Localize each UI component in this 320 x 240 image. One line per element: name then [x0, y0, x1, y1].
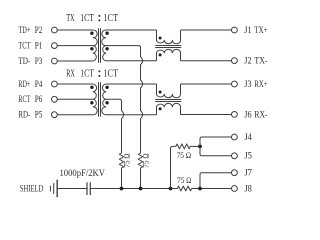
svg-text:RX-: RX- [254, 110, 267, 120]
wire choke L1 bottom to J2 [181, 60, 232, 62]
svg-text:TX+: TX+ [254, 26, 267, 36]
common-mode choke L1 top winding [157, 30, 181, 44]
transformer T2 secondary winding [102, 84, 106, 115]
wire choke L1 top to J1 [181, 29, 232, 31]
resistor R4 75 ohm (J7/J8 to rail) [177, 186, 191, 191]
wire P3 to T1 primary bottom [57, 60, 93, 62]
pin P2 terminal circle [52, 27, 58, 33]
transformer T2 secondary polarity dot (bottom winding) [105, 101, 108, 104]
svg-text:1CT: 1CT [103, 13, 118, 24]
wire bracket J7 to rail junction [200, 173, 232, 189]
svg-text:J4: J4 [244, 133, 252, 143]
svg-text:J3: J3 [244, 80, 251, 90]
svg-text:J5: J5 [244, 152, 252, 162]
transformer T2 primary polarity dot (top) [90, 86, 93, 89]
wire T2 secondary bottom to choke L2 bottom [106, 114, 157, 116]
pin P6 terminal circle [52, 96, 58, 102]
svg-text:RD-: RD- [18, 111, 30, 121]
svg-text:75: 75 [123, 160, 132, 167]
transformer T1 primary polarity dot (bottom winding) [90, 47, 93, 50]
svg-text:J7: J7 [244, 169, 252, 179]
svg-text:1000pF/2KV: 1000pF/2KV [60, 168, 106, 178]
svg-text:75: 75 [177, 151, 184, 160]
svg-text:P6: P6 [35, 95, 43, 105]
svg-text:TD-: TD- [18, 57, 30, 67]
transformer T1 secondary polarity dot (top) [105, 32, 108, 35]
junction dot J4/J5 bracket [198, 145, 202, 149]
svg-text:1CT: 1CT [80, 69, 94, 80]
transformer T1 primary polarity dot (top) [90, 32, 93, 35]
junction dot rail at R1 [120, 187, 124, 191]
svg-text:P1: P1 [35, 42, 43, 52]
common-mode choke L2 bottom winding [157, 103, 181, 114]
svg-text:P5: P5 [35, 111, 43, 121]
resistor R2 75 ohm (TX center tap) [138, 153, 142, 189]
wire T1 secondary bottom to choke L1 bottom [106, 60, 157, 62]
svg-text:TD+: TD+ [18, 26, 30, 36]
svg-text:J6: J6 [244, 110, 251, 120]
junction dot rail at J7 branch [198, 187, 202, 191]
svg-text:TX: TX [66, 13, 75, 24]
pin P4 terminal circle [52, 81, 58, 87]
wire P2 to T1 primary top [57, 29, 93, 31]
svg-text:RD+: RD+ [18, 80, 30, 90]
wire choke L2 bottom to J6 [181, 114, 232, 116]
choke L1 top polarity dot [159, 37, 162, 40]
label TX transformer ratio [66, 13, 118, 24]
pin P5 terminal circle [52, 112, 58, 118]
transformer T1 secondary winding [102, 30, 106, 61]
pin J7 terminal circle [232, 170, 238, 176]
wire T1 secondary center tap to resistor R2 (vertical with hops) [106, 46, 143, 153]
wire P6 to T2 primary center tap [57, 98, 93, 100]
svg-text:SHIELD: SHIELD [20, 184, 44, 194]
pin J2 terminal circle [232, 58, 238, 64]
choke L2 top polarity dot [159, 91, 162, 94]
pin P3 terminal circle [52, 58, 58, 64]
svg-text:Ω: Ω [186, 151, 191, 160]
transformer T2 secondary polarity dot (top) [105, 86, 108, 89]
pin P1 terminal circle [52, 43, 58, 49]
svg-text:RX: RX [66, 69, 75, 80]
choke L1 core [155, 46, 181, 48]
wire P1 to T1 primary center tap [57, 45, 93, 47]
wire T2 secondary top to choke L2 [106, 83, 157, 85]
svg-text:Ω: Ω [186, 176, 191, 185]
svg-text:1CT: 1CT [80, 13, 94, 24]
choke L2 bottom polarity dot [159, 107, 162, 110]
svg-text:TCT: TCT [18, 42, 30, 52]
svg-text:J1: J1 [244, 26, 251, 36]
pin J1 terminal circle [232, 27, 238, 33]
common-mode choke L1 bottom winding [157, 49, 181, 60]
capacitor C1 1000pF/2KV plate left [86, 182, 88, 195]
transformer T2 primary polarity dot (bottom winding) [90, 101, 93, 104]
rail wire capacitor to resistor R4 [90, 188, 177, 190]
svg-text:J8: J8 [244, 184, 252, 194]
shield chassis symbol [56, 180, 58, 198]
pin J6 terminal circle [232, 112, 238, 118]
svg-text:Ω: Ω [142, 153, 151, 158]
junction dot rail at R3 branch [169, 187, 173, 191]
svg-text:RX+: RX+ [254, 80, 267, 90]
transformer T2 (RX 1CT:1CT) primary winding [93, 84, 97, 115]
value label R1 75 ohm (rotated) [123, 153, 132, 167]
choke L1 bottom polarity dot [159, 53, 162, 56]
svg-text:Ω: Ω [123, 153, 132, 158]
capacitor C1 plate right [89, 182, 91, 195]
pin J3 terminal circle [232, 81, 238, 87]
pin J4 terminal circle [232, 134, 238, 140]
svg-text:RCT: RCT [18, 95, 30, 105]
wire P4 to T2 primary top [57, 83, 93, 85]
resistor R1 75 ohm (RX center tap) [119, 153, 123, 189]
svg-text:TX-: TX- [254, 56, 267, 66]
transformer T1 (TX 1CT:1CT) primary winding [93, 30, 97, 61]
transformer T1 core [99, 28, 101, 63]
wire choke L2 top to J3 [181, 83, 232, 85]
label RX transformer ratio [66, 69, 118, 80]
choke L2 core [155, 100, 181, 102]
svg-text:P2: P2 [35, 26, 43, 36]
resistor R3 75 ohm (J4/J5 to rail) with down lead [171, 144, 201, 189]
pin J5 terminal circle [232, 153, 238, 159]
transformer T1 secondary polarity dot (bottom winding) [105, 47, 108, 50]
svg-text:75: 75 [177, 176, 184, 185]
svg-text:P3: P3 [35, 57, 43, 67]
bottom common rail wire [57, 188, 86, 190]
svg-text:75: 75 [142, 160, 151, 167]
wire bracket to J4 and J5 [200, 137, 232, 156]
common-mode choke L2 top winding [157, 84, 181, 98]
junction dot rail at R2 [139, 187, 143, 191]
wire T1 secondary top to choke L1 [106, 29, 157, 31]
svg-text:P4: P4 [35, 80, 43, 90]
transformer T2 core [99, 82, 101, 116]
wire T2 secondary center tap to resistor R1 (vertical with hop) [106, 99, 124, 153]
value label R2 75 ohm (rotated) [142, 153, 151, 167]
svg-text:1CT: 1CT [103, 69, 118, 80]
wire P5 to T2 primary bottom [57, 114, 93, 116]
rail wire resistor R4 to J8 [192, 188, 232, 190]
pin J8 terminal circle [232, 186, 238, 192]
svg-text:J2: J2 [244, 56, 251, 66]
